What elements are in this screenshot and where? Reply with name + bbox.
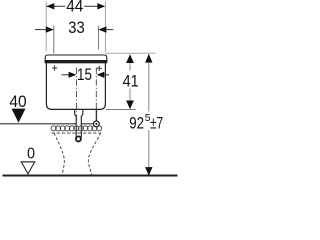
svg-text:92: 92	[129, 115, 144, 133]
svg-text:33: 33	[68, 19, 84, 37]
svg-text:44: 44	[66, 0, 83, 16]
svg-text:±7: ±7	[150, 115, 163, 133]
svg-text:41: 41	[123, 73, 139, 91]
svg-text:40: 40	[9, 93, 26, 111]
svg-text:15: 15	[77, 66, 92, 84]
svg-text:0: 0	[27, 145, 35, 162]
